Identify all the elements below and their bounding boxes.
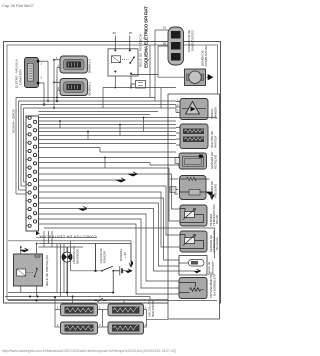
svg-text:87: 87	[129, 31, 133, 35]
junction dots midfield	[47, 97, 144, 159]
air temp pins	[176, 209, 180, 221]
injector junction dots	[36, 296, 57, 302]
rotation sensor box	[175, 153, 207, 169]
svg-text:16: 16	[163, 26, 167, 30]
svg-text:+ 30: + 30	[123, 252, 127, 258]
injector resistors pins	[176, 128, 180, 146]
canister pins	[39, 61, 48, 83]
ECU connector pins column A	[28, 116, 31, 227]
map sensor arrow	[206, 192, 214, 199]
ignition coil BOBINA 2	[60, 56, 88, 73]
svg-text:DIAGNÓSTICO: DIAGNÓSTICO	[190, 29, 195, 51]
junction dots lower bus	[29, 292, 114, 298]
bobina1 pins	[54, 82, 60, 90]
inline connector box	[131, 81, 146, 89]
fuel pump arrow	[207, 75, 213, 80]
injector pin numbers	[57, 306, 147, 328]
canister electrovalve	[25, 58, 40, 88]
lower ECU wires	[39, 198, 215, 294]
svg-text:2: 2	[58, 64, 60, 68]
injector valve V2	[108, 304, 144, 316]
ECU connector pins column B	[33, 120, 36, 223]
svg-text:IGNIÇÃO: IGNIÇÃO	[101, 250, 106, 263]
throttle pot pins	[174, 281, 179, 294]
diagnostic connector	[168, 27, 184, 65]
map sensor box	[180, 176, 210, 200]
left bus connector stubs	[16, 182, 26, 194]
svg-text:2: 2	[58, 86, 60, 90]
svg-text:BOBINA 1: BOBINA 1	[88, 81, 92, 95]
relay bottom pins	[114, 87, 132, 89]
feed arrow	[20, 248, 29, 252]
svg-text:2: 2	[99, 306, 101, 310]
relay top pins	[115, 36, 130, 49]
svg-text:BOBINA 2: BOBINA 2	[88, 59, 92, 73]
top area wires	[43, 30, 184, 108]
ignition coil BOBINA 1	[60, 79, 88, 96]
relay RELE DE PROTECAO	[14, 254, 43, 286]
ignition switch	[96, 244, 120, 271]
svg-text:CONECTOR DA CENTRALINA: CONECTOR DA CENTRALINA	[39, 235, 97, 239]
mid arrows	[128, 172, 138, 176]
ECU pin ticks	[26, 118, 28, 226]
svg-text:CANISTER: CANISTER	[19, 69, 23, 85]
throttle potentiometer box	[179, 278, 207, 299]
svg-text:1: 1	[56, 56, 58, 60]
air temp sensor box	[180, 205, 207, 226]
svg-text:PARTIDA: PARTIDA	[213, 136, 217, 148]
svg-text:Cap 46 Fiat 06/07: Cap 46 Fiat 06/07	[2, 3, 35, 8]
knock sensor pins	[174, 260, 179, 271]
svg-text:COMBUSTÍVEL: COMBUSTÍVEL	[204, 45, 208, 67]
svg-text:1: 1	[57, 323, 59, 327]
bobina2 pins	[54, 60, 60, 68]
knock sensor box	[179, 256, 207, 276]
lower bus wires	[5, 231, 217, 301]
frame outer border	[4, 42, 221, 304]
injector resistors box	[180, 124, 208, 149]
svg-text:26: 26	[163, 42, 167, 46]
rotation sensor pins	[176, 158, 180, 166]
water temp pins	[176, 235, 180, 247]
svg-text:2: 2	[145, 306, 147, 310]
svg-text:http://www.backingfile.com.br/: http://www.backingfile.com.br/Mecanica/D…	[2, 349, 176, 353]
svg-text:ACIONA - GIROS: ACIONA - GIROS	[12, 109, 16, 133]
svg-text:DA BORBOLETA: DA BORBOLETA	[212, 274, 216, 296]
svg-text:PRESSÃO: PRESSÃO	[212, 183, 217, 198]
svg-text:2: 2	[41, 76, 43, 80]
down arrow mid	[129, 260, 133, 268]
lamp wires	[66, 247, 68, 293]
fuel pump	[185, 69, 206, 86]
injector valve V3	[61, 322, 98, 334]
injector valve V4	[108, 322, 144, 334]
svg-text:30: 30	[113, 31, 117, 35]
svg-text:2: 2	[99, 323, 101, 327]
map sensor pins	[170, 179, 178, 194]
frame inner border	[7, 45, 218, 300]
relay junction dots	[20, 243, 38, 248]
diag connector pins	[162, 30, 168, 46]
sensor column box	[168, 94, 220, 319]
mid arrow 3	[116, 178, 126, 182]
battery	[113, 266, 125, 292]
relay U-POT power relay box	[108, 49, 158, 76]
relay pins	[21, 244, 37, 297]
ECU wire fan to right	[39, 112, 218, 248]
horizontal wire band below coils	[16, 98, 176, 113]
svg-text:ESQUEMA ELÉTRICO SPI FIAT: ESQUEMA ELÉTRICO SPI FIAT	[142, 6, 150, 68]
svg-text:INJETORAS: INJETORAS	[151, 301, 155, 318]
injector valve V1	[61, 304, 98, 316]
svg-text:DIAGNOSE: DIAGNOSE	[75, 249, 79, 264]
svg-text:1: 1	[57, 306, 59, 310]
diagnostic lamp	[62, 252, 72, 262]
ECU connector	[26, 116, 39, 231]
left bus vertical wires	[16, 98, 24, 195]
svg-text:RELÉ DE PROTEÇÃO: RELÉ DE PROTEÇÃO	[44, 254, 49, 286]
svg-text:1: 1	[41, 62, 43, 66]
svg-text:DO AR: DO AR	[215, 215, 219, 224]
line under ECU label	[36, 237, 97, 239]
svg-text:ROTAÇÃO: ROTAÇÃO	[212, 154, 217, 169]
water temp sensor box	[180, 231, 207, 252]
wire section break squiggle	[94, 298, 107, 302]
lambda sensor box	[180, 99, 208, 120]
injector wiring	[55, 297, 168, 328]
lambda pins	[176, 102, 180, 113]
svg-text:DA ÁGUA: DA ÁGUA	[215, 237, 219, 250]
